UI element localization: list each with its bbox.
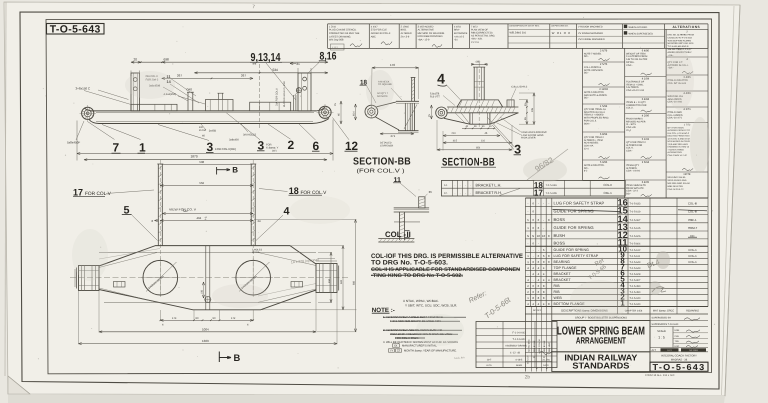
section BB main - right dim chain bbox=[519, 93, 535, 125]
revision strip cell drg no bbox=[551, 25, 570, 35]
svg-text:SUPERSEDED BY: SUPERSEDED BY bbox=[652, 317, 672, 320]
svg-text:ALTERED + ITEM: ALTERED + ITEM bbox=[584, 139, 603, 142]
svg-text:FORM 18 ALL. 912 x 660: FORM 18 ALL. 912 x 660 bbox=[645, 374, 675, 377]
elevation centre line bbox=[259, 64, 261, 130]
svg-text:NO-8 ADDED IN ITEMS: NO-8 ADDED IN ITEMS bbox=[668, 140, 691, 143]
revision col1 block 9-96 bbox=[583, 161, 625, 180]
alterations block note welding bbox=[666, 173, 708, 198]
svg-text:6084 DELETED: 6084 DELETED bbox=[668, 185, 684, 188]
revision column 1 bbox=[583, 48, 625, 198]
svg-text:498: 498 bbox=[252, 63, 257, 66]
revision column 2 bbox=[665, 29, 667, 198]
svg-text:3+8x150 C: 3+8x150 C bbox=[76, 87, 91, 91]
title block supersedes rows bbox=[650, 317, 708, 327]
svg-text:FOR COL.II(Hm): FOR COL.II(Hm) bbox=[215, 147, 236, 151]
svg-text:INTEGRAL COACH FACTORY: INTEGRAL COACH FACTORY bbox=[661, 355, 697, 358]
svg-text:T-0-5-604: T-0-5-604 bbox=[630, 243, 641, 246]
revision col1 block 8-94 bbox=[583, 133, 625, 160]
svg-text:COL-1: COL-1 bbox=[688, 248, 697, 252]
svg-text:3/4 HOLES: 3/4 HOLES bbox=[243, 133, 256, 136]
svg-text:6 4/95: 6 4/95 bbox=[642, 181, 650, 184]
svg-text:45 DIA: 45 DIA bbox=[199, 129, 206, 132]
svg-text:5 ALTERED.: 5 ALTERED. bbox=[626, 86, 639, 89]
note item xx yy bbox=[389, 344, 458, 353]
svg-text:REMARKS: REMARKS bbox=[686, 310, 699, 313]
revision col1 block 12-92 bbox=[583, 88, 625, 104]
elevation spring guide block B bbox=[206, 93, 234, 111]
svg-text:-: - bbox=[470, 184, 471, 187]
svg-text:BRACKET: BRACKET bbox=[554, 272, 572, 276]
svg-text:COL.II: COL.II bbox=[603, 183, 612, 187]
svg-text:172: 172 bbox=[231, 317, 236, 320]
elevation label 3x8x150C bbox=[76, 87, 132, 105]
plan view right vertical dims bbox=[254, 220, 357, 332]
svg-text:2-DIA HOLES FOR RIVE: 2-DIA HOLES FOR RIVE bbox=[521, 131, 547, 134]
svg-text:DD:-: DD:- bbox=[584, 55, 589, 58]
pencil note 96-82 bbox=[527, 149, 568, 180]
plan view dim 1369 bbox=[79, 291, 338, 345]
section BB main - dim 48 bbox=[471, 61, 488, 66]
plan view right bracket end bbox=[316, 259, 339, 293]
svg-text:10: 10 bbox=[542, 234, 546, 238]
svg-text:CDA:-AA: CDA:-AA bbox=[584, 145, 594, 148]
plan view dim 542 bbox=[163, 209, 254, 215]
elevation spring guide block C bbox=[250, 102, 291, 111]
section BB main - title bbox=[441, 156, 496, 168]
svg-text:NOTE-I REVISED.: NOTE-I REVISED. bbox=[584, 69, 604, 72]
elevation guide post phi40 bbox=[186, 88, 194, 111]
plan view item callout 4 bbox=[256, 205, 290, 240]
svg-text:2 12/92: 2 12/92 bbox=[599, 88, 608, 91]
title block indian railway standards bbox=[552, 352, 650, 372]
svg-text:DD:-: DD:- bbox=[626, 193, 631, 196]
svg-text:AS PER DRG NO.: AS PER DRG NO. bbox=[551, 25, 569, 28]
svg-text:CDA:-AA 22-1-54: CDA:-AA 22-1-54 bbox=[626, 89, 645, 92]
svg-text:110: 110 bbox=[481, 139, 486, 142]
revision col2 block 4-80 bbox=[625, 49, 666, 76]
svg-text:T-0-5-067: T-0-5-067 bbox=[630, 219, 641, 222]
revision strip cell 2 bbox=[371, 25, 392, 45]
svg-text:450: 450 bbox=[328, 278, 331, 283]
svg-text:BUFFER HOLE CL 2/32: BUFFER HOLE CL 2/32 bbox=[283, 81, 286, 107]
svg-text:QTY FOR ITEMS: QTY FOR ITEMS bbox=[668, 126, 685, 129]
svg-text:3: 3 bbox=[207, 140, 214, 154]
plan view bottom small dims bbox=[160, 310, 254, 326]
svg-text:T-0-5-040: T-0-5-040 bbox=[630, 297, 641, 300]
parts table row data bbox=[527, 197, 707, 307]
section BB main - label 4 bbox=[437, 71, 462, 102]
svg-text:FOR COL.V: FOR COL.V bbox=[85, 191, 112, 197]
svg-text:T-0-5-626: T-0-5-626 bbox=[630, 235, 641, 238]
svg-text:-: - bbox=[528, 242, 529, 246]
svg-text:R-DIA LEVER: R-DIA LEVER bbox=[521, 137, 536, 140]
svg-text:YY: YY bbox=[390, 350, 394, 353]
svg-text:-: - bbox=[528, 202, 529, 206]
svg-text:GUIDE FOR SPRING: GUIDE FOR SPRING bbox=[554, 225, 594, 230]
svg-text:STIFFENER: STIFFENER bbox=[380, 144, 394, 147]
plan view item callout 5 bbox=[122, 204, 158, 240]
section BB main - left eye bbox=[436, 107, 447, 118]
svg-text:WELDING 316: WELDING 316 bbox=[510, 32, 527, 35]
section BB for col V - body bbox=[376, 78, 420, 133]
title block integral coach factory bbox=[650, 355, 708, 363]
svg-text:WITH PROFILED RING: WITH PROFILED RING bbox=[584, 117, 609, 120]
svg-text:CDA:-M 23-5-72: CDA:-M 23-5-72 bbox=[668, 188, 685, 191]
svg-text:T-O-5-643: T-O-5-643 bbox=[50, 23, 101, 35]
svg-text:-: - bbox=[533, 278, 534, 282]
svg-text:12 IN COL-II AND ITEM: 12 IN COL-II AND ITEM bbox=[668, 137, 690, 140]
svg-text:2: 2 bbox=[288, 138, 295, 152]
svg-text:DD:-: DD:- bbox=[584, 72, 589, 75]
svg-text:GUIDE FOR SPRING: GUIDE FOR SPRING bbox=[554, 248, 590, 252]
elevation right bracket plate item 8 bbox=[298, 68, 311, 111]
revision strip cell when altered bbox=[624, 25, 653, 36]
svg-text:1 5/94: 1 5/94 bbox=[600, 105, 608, 108]
plan view section arrow B bottom bbox=[219, 352, 240, 363]
svg-text:MAT &amp; SPEC: MAT &amp; SPEC bbox=[653, 310, 674, 313]
section BB for col V - eye bbox=[365, 105, 378, 118]
svg-text:-: - bbox=[538, 202, 539, 206]
svg-text:DDA:-: DDA:- bbox=[584, 122, 591, 125]
svg-text:RIB: RIB bbox=[554, 284, 561, 288]
plan view beam outline bbox=[70, 246, 348, 310]
svg-text:T-0-5-628: T-0-5-628 bbox=[630, 273, 641, 276]
elevation item callout 6 bbox=[299, 124, 320, 153]
svg-text:ALTERED.: ALTERED. bbox=[626, 167, 638, 170]
svg-text:NOTE-7 ADDED.: NOTE-7 ADDED. bbox=[584, 52, 602, 55]
svg-text:5x8x450F: 5x8x450F bbox=[67, 141, 80, 145]
svg-text:PER UNIT: PER UNIT bbox=[548, 342, 551, 352]
svg-text:-: - bbox=[470, 192, 471, 195]
svg-text:PER COACH: PER COACH bbox=[538, 339, 541, 352]
elevation right end vertical dims bbox=[334, 101, 342, 124]
plan view centre web lines bbox=[200, 246, 211, 310]
revision strip cell 4 bbox=[418, 25, 445, 47]
svg-text:LUG FOR SAFETY STRAP: LUG FOR SAFETY STRAP bbox=[554, 201, 605, 206]
svg-text:BOSS: BOSS bbox=[554, 241, 566, 246]
title block alt row bbox=[650, 348, 708, 352]
svg-text:-: - bbox=[538, 242, 539, 246]
elevation callout label 8,16 bbox=[308, 51, 337, 74]
svg-text:COL-1: COL-1 bbox=[688, 260, 697, 264]
section BB for col V - title bbox=[353, 157, 416, 197]
svg-text:2 6/94: 2 6/94 bbox=[642, 161, 650, 164]
svg-text:W O1 O 8: W O1 O 8 bbox=[552, 31, 571, 35]
elevation item callout 1 bbox=[102, 125, 146, 155]
elevation overall dimension 1870 bbox=[77, 120, 333, 161]
elevation item callout 3 for col II bbox=[158, 125, 236, 155]
svg-text:698: 698 bbox=[164, 58, 170, 62]
svg-text:2 5/76: 2 5/76 bbox=[600, 63, 608, 66]
plan view label 17 for col V bbox=[73, 188, 154, 199]
bracket table 17 18 bbox=[442, 180, 626, 198]
svg-text:T-0-5-643: T-0-5-643 bbox=[630, 267, 641, 270]
plan view spring hole right bbox=[234, 258, 273, 297]
svg-text:ITEM-2 8MM ALTD: ITEM-2 8MM ALTD bbox=[626, 184, 646, 187]
svg-text:FOR COL.II.: FOR COL.II. bbox=[584, 120, 597, 123]
section BB main - centre post bbox=[473, 63, 485, 129]
svg-text:T-0-5-307: T-0-5-307 bbox=[630, 279, 641, 282]
elevation small labels under beam bbox=[199, 124, 256, 142]
revision col1 block 5-94 bbox=[583, 105, 625, 132]
svg-text:2x45B: 2x45B bbox=[209, 129, 217, 132]
revision col2 block 4-84 bbox=[625, 98, 666, 114]
svg-text:CDA:- 4-6-94: CDA:- 4-6-94 bbox=[626, 170, 640, 173]
svg-text:WHEN SUPERSEDED: WHEN SUPERSEDED bbox=[629, 32, 654, 35]
svg-text:6 8/94: 6 8/94 bbox=[600, 133, 608, 136]
elevation item callout 12 bbox=[333, 118, 359, 153]
elevation label 4-3x4x350 bbox=[164, 93, 206, 104]
elevation item callout 3 second bbox=[226, 113, 279, 153]
plan view top dims 598 562 bbox=[160, 160, 253, 187]
svg-text:7,8,9 AND SPELLING: 7,8,9 AND SPELLING bbox=[668, 143, 689, 146]
svg-text:C.Ba.1250-R.S: C.Ba.1250-R.S bbox=[511, 86, 527, 89]
svg-text:17: 17 bbox=[534, 188, 543, 198]
svg-text:SCALE: SCALE bbox=[657, 330, 666, 333]
svg-text:STANDARDS: STANDARDS bbox=[572, 361, 629, 371]
svg-text:DRN: DRN bbox=[675, 329, 680, 332]
svg-text:-: - bbox=[543, 218, 544, 222]
svg-text:T-O-5-644,645 AND B: T-O-5-644,645 AND B bbox=[668, 45, 690, 48]
svg-text:3x8x450: 3x8x450 bbox=[229, 139, 239, 142]
alterations block welding 316 bbox=[666, 92, 708, 107]
revision col2 block 6-94 bbox=[625, 161, 666, 180]
svg-text:IS - 3073.: IS - 3073. bbox=[626, 123, 636, 126]
svg-text:F-1-0-0-043: F-1-0-0-043 bbox=[512, 331, 526, 334]
section BB for col V - label 18 bbox=[360, 79, 377, 103]
svg-text:T-0-5-612: T-0-5-612 bbox=[630, 249, 641, 252]
svg-text:SUPERSEDES T-O-2-643: SUPERSEDES T-O-2-643 bbox=[652, 323, 679, 326]
svg-text:10: 10 bbox=[537, 234, 541, 238]
svg-text:-: - bbox=[538, 248, 539, 252]
svg-text:DELETED IN COL.II: DELETED IN COL.II bbox=[584, 111, 605, 114]
svg-text:CORRECTED FOR: CORRECTED FOR bbox=[626, 104, 647, 107]
plan view upper guide posts bbox=[157, 160, 256, 296]
svg-text:DIA FOR COL.II: DIA FOR COL.II bbox=[276, 88, 279, 106]
svg-text:267: 267 bbox=[177, 73, 182, 77]
svg-text:10-7: 10-7 bbox=[487, 358, 492, 361]
svg-text:888: 888 bbox=[352, 280, 355, 285]
svg-text:NO-8 ADDED.: NO-8 ADDED. bbox=[584, 142, 599, 145]
pencil note refer bbox=[467, 289, 513, 320]
svg-text:CHAPTER 2456: CHAPTER 2456 bbox=[625, 310, 643, 313]
alterations block item 13 col I bbox=[666, 108, 708, 123]
plan view section arrow B top bbox=[217, 166, 239, 175]
svg-text:W/4 Drg 5/68: W/4 Drg 5/68 bbox=[329, 39, 344, 42]
svg-text:542: 542 bbox=[183, 209, 188, 213]
svg-text:ITEM-7: ITEM-7 bbox=[688, 226, 698, 230]
svg-text:30 DIA: 30 DIA bbox=[252, 251, 260, 254]
svg-text:BUSH: BUSH bbox=[554, 233, 566, 238]
svg-text:BRACKET: BRACKET bbox=[554, 278, 572, 282]
svg-text:ALTERATIONS.: ALTERATIONS. bbox=[668, 151, 683, 154]
svg-text:12.: 12. bbox=[444, 192, 448, 195]
revision strip cell 5 bbox=[454, 25, 468, 41]
svg-text:6 4/84: 6 4/84 bbox=[642, 98, 650, 101]
elevation callout label 9,13,14 bbox=[250, 52, 296, 100]
svg-text:SECTION-BB: SECTION-BB bbox=[353, 157, 411, 168]
svg-text:170: 170 bbox=[390, 63, 395, 67]
svg-text:ITEM-8 QTY: ITEM-8 QTY bbox=[626, 164, 640, 167]
svg-text:CDA:-24-4-71: CDA:-24-4-71 bbox=[668, 117, 683, 120]
svg-text:T-0-5-606: T-0-5-606 bbox=[546, 192, 558, 195]
revision strip cell 1 bbox=[329, 25, 362, 47]
svg-text:1 7/72: 1 7/72 bbox=[684, 124, 691, 127]
svg-text:DESCRIPTION OF NO OF REV.: DESCRIPTION OF NO OF REV. bbox=[510, 25, 540, 28]
svg-text:ITEMS 8 + 13 QTY: ITEMS 8 + 13 QTY bbox=[626, 101, 646, 104]
svg-text:R.S-VTT: R.S-VTT bbox=[430, 95, 440, 98]
svg-text:31, Rw: 31, Rw bbox=[542, 358, 550, 361]
svg-text:TO/S-BOTTOM PLATES: TO/S-BOTTOM PLATES bbox=[668, 39, 692, 42]
elevation dimension 534 bbox=[194, 68, 328, 74]
elevation vertical labels DIA FOR COL bbox=[276, 81, 287, 107]
svg-text:ALTERATIONS: ALTERATIONS bbox=[672, 25, 700, 29]
svg-text:ALTERED FROM 12 TO: ALTERED FROM 12 TO bbox=[668, 129, 691, 132]
pencil scribbles parts table bbox=[588, 251, 670, 295]
svg-text:13 ALTERED FROM: 13 ALTERED FROM bbox=[626, 55, 647, 58]
revision strip cell 6 bbox=[471, 25, 496, 44]
plan view left clevis end bbox=[75, 266, 99, 291]
svg-text:30/1: 30/1 bbox=[272, 150, 277, 153]
svg-text:8 IN COL-I, ITEM NO-2: 8 IN COL-I, ITEM NO-2 bbox=[668, 132, 690, 135]
plan view small boss right bbox=[291, 282, 303, 288]
svg-text:-: - bbox=[528, 210, 529, 214]
svg-text:MODIFIED REF DRG NOS: MODIFIED REF DRG NOS bbox=[668, 42, 694, 45]
svg-text:DD:-: DD:- bbox=[584, 97, 589, 100]
title block scale and signatures bbox=[650, 327, 708, 348]
elevation right eye boss bbox=[317, 104, 334, 121]
svg-text:COL-III: COL-III bbox=[688, 202, 698, 206]
section BB main - bottom dims bbox=[437, 120, 512, 151]
svg-text:210: 210 bbox=[452, 132, 457, 135]
svg-text:BOSS: BOSS bbox=[554, 217, 566, 222]
svg-text:-: - bbox=[533, 248, 534, 252]
svg-text:X NTAC, WPAC, WCBAC.: X NTAC, WPAC, WCBAC. bbox=[403, 299, 439, 303]
elevation dimension 267 267 bbox=[162, 73, 253, 79]
svg-text:ITEM-12 + DIML.: ITEM-12 + DIML. bbox=[626, 83, 644, 86]
svg-text:36: 36 bbox=[429, 190, 433, 194]
svg-text:-: - bbox=[543, 202, 544, 206]
svg-text:COL-I ADDED &: COL-I ADDED & bbox=[584, 66, 602, 69]
svg-text:7: 7 bbox=[113, 140, 120, 154]
svg-text:N: N bbox=[532, 234, 534, 238]
alterations block drg no altered bbox=[666, 30, 708, 57]
svg-text:4 -12- 49: 4 -12- 49 bbox=[510, 352, 521, 355]
svg-text:NOTE-5 DELETED: NOTE-5 DELETED bbox=[584, 91, 604, 94]
svg-text:T-O-5-643: T-O-5-643 bbox=[653, 362, 706, 372]
svg-text:CDA:-AB: CDA:-AB bbox=[626, 126, 636, 129]
section BB main - rivet note bbox=[495, 117, 547, 140]
svg-text:14.: 14. bbox=[444, 184, 448, 187]
svg-text:CBL.1: CBL.1 bbox=[604, 191, 613, 195]
plan view label 18 for col V bbox=[259, 186, 327, 197]
svg-text:COL-I ADDED.: COL-I ADDED. bbox=[668, 114, 684, 117]
revision col1 block 6-79 bbox=[583, 49, 625, 62]
section BB main - label 3 bbox=[488, 118, 522, 157]
svg-text:TO DRG No. T-O-5-603.: TO DRG No. T-O-5-603. bbox=[371, 259, 448, 266]
svg-text:267: 267 bbox=[241, 73, 246, 77]
svg-text:WEIGHT OF ITEM: WEIGHT OF ITEM bbox=[626, 52, 645, 55]
svg-text:SECTION-BB: SECTION-BB bbox=[442, 156, 495, 168]
revision strip cell finish marks bbox=[578, 25, 605, 41]
alterations block qty for items bbox=[666, 124, 708, 173]
svg-text:0-18-5: 0-18-5 bbox=[516, 358, 523, 361]
svg-text:COL.II.: COL.II. bbox=[626, 107, 634, 110]
section BB main - top flange block bbox=[457, 100, 503, 107]
alterations column border bbox=[707, 29, 709, 198]
note struck item 1 bbox=[383, 315, 466, 323]
plan view spring hole left bbox=[141, 258, 180, 297]
parts schedule table bbox=[525, 198, 708, 307]
svg-text:NS 1963: NS 1963 bbox=[689, 349, 698, 352]
section BB main - right boss bbox=[507, 86, 528, 107]
revision strip cell welding bbox=[510, 25, 540, 35]
svg-text:4 2/71: 4 2/71 bbox=[683, 108, 691, 111]
svg-text:BEARING: BEARING bbox=[554, 260, 571, 264]
svg-text:173: 173 bbox=[172, 317, 177, 320]
svg-text:+BA:- 12-9: +BA:- 12-9 bbox=[418, 39, 430, 42]
svg-text:ASSEMBLY DRAWN: ASSEMBLY DRAWN bbox=[505, 345, 527, 348]
svg-text:PBF-1: PBF-1 bbox=[688, 218, 697, 222]
svg-text:22-4: 22-4 bbox=[626, 129, 631, 132]
svg-text:T-0-5-450: T-0-5-450 bbox=[630, 285, 641, 288]
svg-text:L-DIA 3/4 FOR HAND: L-DIA 3/4 FOR HAND bbox=[521, 134, 544, 137]
svg-text:ZZ: ZZ bbox=[397, 350, 401, 353]
svg-text:654: 654 bbox=[476, 146, 481, 149]
revision col1 block 5-76 bbox=[583, 63, 625, 87]
svg-text:CDA:- 22-3: CDA:- 22-3 bbox=[626, 190, 638, 193]
svg-text:DRG NO. ALTERED FROM: DRG NO. ALTERED FROM bbox=[668, 33, 694, 36]
note col-I permissible alternative bbox=[371, 253, 524, 279]
svg-text:ABC: ABC bbox=[371, 35, 376, 38]
svg-text:12: 12 bbox=[345, 139, 358, 153]
svg-text:M/S WELDING 316-94: M/S WELDING 316-94 bbox=[668, 182, 691, 185]
section BB main - web box bbox=[444, 113, 518, 124]
elevation centre pin with eye bbox=[294, 88, 302, 111]
svg-text:NOTE-8 DELETED.: NOTE-8 DELETED. bbox=[584, 164, 605, 167]
svg-text:CHANGED IN ITEM-12: CHANGED IN ITEM-12 bbox=[668, 146, 690, 149]
section BB main - left dim 75 bbox=[428, 105, 432, 119]
svg-text:Y SB/T, WTC, SCU, SDC, WCB, S: Y SB/T, WTC, SCU, SDC, WCB, SLR. bbox=[405, 304, 457, 308]
svg-text:-: - bbox=[543, 226, 544, 230]
svg-text:2A+ 3-9: 2A+ 3-9 bbox=[401, 35, 410, 38]
svg-text:QTY FOR ITEMS 4,6: QTY FOR ITEMS 4,6 bbox=[584, 108, 607, 111]
svg-text:148 TO 204 AS PER: 148 TO 204 AS PER bbox=[626, 58, 648, 61]
svg-text:NAME: NAME bbox=[516, 364, 523, 367]
svg-text:156: 156 bbox=[200, 289, 203, 294]
approval table bbox=[476, 322, 557, 368]
svg-text:TSD: TSD bbox=[675, 340, 680, 343]
svg-text:T-0-5-450: T-0-5-450 bbox=[630, 291, 641, 294]
section BB for col V - small notes bbox=[377, 80, 402, 100]
svg-text:DELETED FROM ITEM: DELETED FROM ITEM bbox=[668, 135, 690, 138]
svg-text:5 1/92: 5 1/92 bbox=[642, 138, 650, 141]
svg-text:TOLERANCE OF: TOLERANCE OF bbox=[626, 80, 645, 83]
parts table header row bbox=[525, 307, 708, 372]
alterations column header bbox=[672, 25, 700, 29]
drawing number box T-O-5-643 bbox=[47, 23, 105, 35]
note struck item 2 bbox=[383, 328, 462, 340]
svg-text:CX/S/1070 TO T-O-5-643: CX/S/1070 TO T-O-5-643 bbox=[668, 36, 693, 39]
svg-text:4: 4 bbox=[437, 71, 445, 87]
svg-text:ITEM-13 + ADDED: ITEM-13 + ADDED bbox=[584, 114, 604, 117]
svg-text:-: - bbox=[533, 254, 534, 258]
svg-text:(FOR COL.V ): (FOR COL.V ) bbox=[357, 168, 405, 175]
section BB main - flange band bbox=[447, 107, 519, 113]
svg-text:T-0-5-616: T-0-5-616 bbox=[546, 184, 558, 187]
svg-text:COL -: COL - bbox=[385, 230, 406, 239]
svg-text:T-0-5-633: T-0-5-633 bbox=[630, 203, 641, 206]
